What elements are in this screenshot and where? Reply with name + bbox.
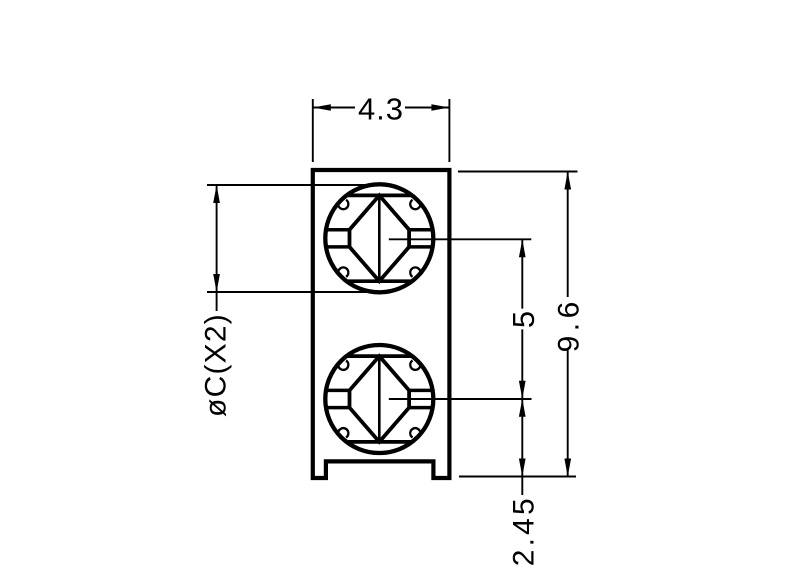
dim 2.45 bottom arrow	[519, 459, 526, 477]
svg-text:øC(X2): øC(X2)	[200, 313, 233, 417]
dim 9.6 dimension line	[567, 172, 569, 477]
hole 1 right slot lines	[409, 230, 433, 247]
hole 1 NE corner arc	[410, 200, 420, 209]
dim C label	[200, 313, 233, 417]
dim C top extension line	[207, 184, 379, 186]
dim 4.3 left extension line	[312, 99, 314, 162]
hole 1 SW corner arc	[338, 267, 348, 276]
svg-text:2.45: 2.45	[508, 495, 541, 566]
dim C bottom arrow	[213, 274, 220, 292]
dim 9.6 bottom extension line	[459, 476, 576, 478]
hole 2 hexagon facet	[350, 356, 410, 442]
hole 2 SW corner arc	[338, 428, 348, 437]
body outline	[313, 170, 450, 478]
dim 2.45 label	[508, 495, 541, 566]
dim 5 bottom leader line from hole 2 center	[389, 398, 532, 400]
hole 2 SE corner arc	[410, 428, 420, 437]
hole 2 center vertical line	[378, 356, 381, 442]
svg-text:4.3: 4.3	[358, 92, 404, 127]
dim 9.6 top extension line	[458, 171, 578, 173]
hole 2 NE corner arc	[410, 361, 420, 370]
hole 1 outer circle	[325, 184, 433, 292]
hole 2 top chord	[347, 354, 411, 358]
dim 5 dimension line	[521, 239, 523, 398]
hole 2 right slot lines	[409, 390, 433, 407]
dim 5 label	[506, 311, 541, 328]
dim 9.6 label	[553, 297, 586, 352]
hole 1 center vertical line	[378, 195, 381, 281]
dim 4.3 left arrow	[313, 104, 331, 111]
hole 1 bottom chord	[347, 279, 411, 283]
hole 2 left slot lines	[326, 390, 350, 407]
dim 2.45 dimension line	[521, 399, 523, 495]
hole 1 SE corner arc	[410, 267, 420, 276]
hole 1 top chord	[347, 194, 411, 198]
dim 5 bottom arrow	[519, 381, 526, 399]
hole 1 NW corner arc	[338, 200, 348, 209]
hole 2 bottom chord	[347, 440, 411, 444]
dim C top arrow	[213, 185, 220, 203]
dim C bottom extension line	[207, 291, 378, 293]
hole 1 hexagon facet	[350, 195, 410, 281]
dim 5 top leader line from hole 1 center	[389, 238, 532, 240]
svg-text:5: 5	[506, 311, 541, 328]
dim 4.3 right extension line	[448, 99, 450, 162]
hole 2 outer circle	[325, 345, 433, 453]
dim 4.3 label	[358, 92, 404, 127]
hole 1 left slot lines	[326, 230, 350, 247]
dim 2.45 top arrow	[519, 399, 526, 417]
hole 2 NW corner arc	[338, 361, 348, 370]
dim 5 top arrow	[519, 239, 526, 257]
dim 4.3 dimension line	[313, 107, 450, 109]
dim 4.3 right arrow	[431, 104, 449, 111]
dim 9.6 top arrow	[564, 172, 571, 190]
dim 9.6 bottom arrow	[564, 459, 571, 477]
dim C dimension line	[216, 185, 218, 311]
svg-text:9.6: 9.6	[553, 297, 586, 352]
